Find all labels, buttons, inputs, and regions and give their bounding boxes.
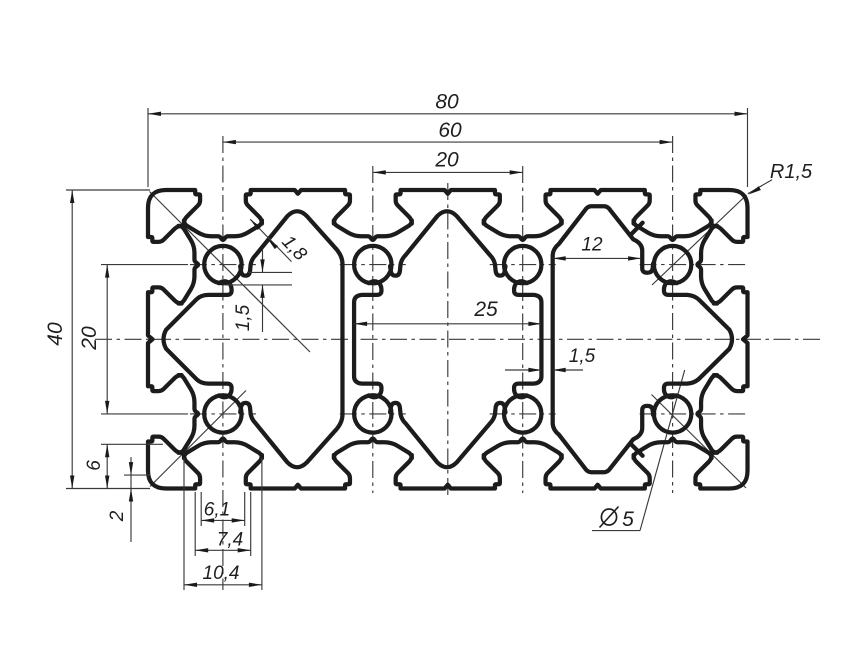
svg-text:20: 20 (434, 149, 459, 172)
svg-text:80: 80 (435, 91, 459, 114)
svg-text:R1,5: R1,5 (770, 161, 813, 183)
svg-text:6: 6 (84, 460, 105, 471)
svg-text:7,4: 7,4 (217, 530, 243, 551)
svg-text:1,5: 1,5 (233, 304, 254, 331)
svg-text:12: 12 (581, 235, 603, 256)
svg-text:10,4: 10,4 (203, 563, 240, 584)
svg-text:2: 2 (107, 510, 128, 522)
svg-text:1,5: 1,5 (569, 346, 596, 367)
svg-text:5: 5 (622, 508, 634, 531)
svg-text:40: 40 (44, 322, 67, 346)
svg-text:25: 25 (473, 298, 498, 321)
svg-text:6,1: 6,1 (204, 500, 230, 521)
svg-text:20: 20 (78, 326, 101, 351)
svg-text:60: 60 (438, 119, 462, 142)
